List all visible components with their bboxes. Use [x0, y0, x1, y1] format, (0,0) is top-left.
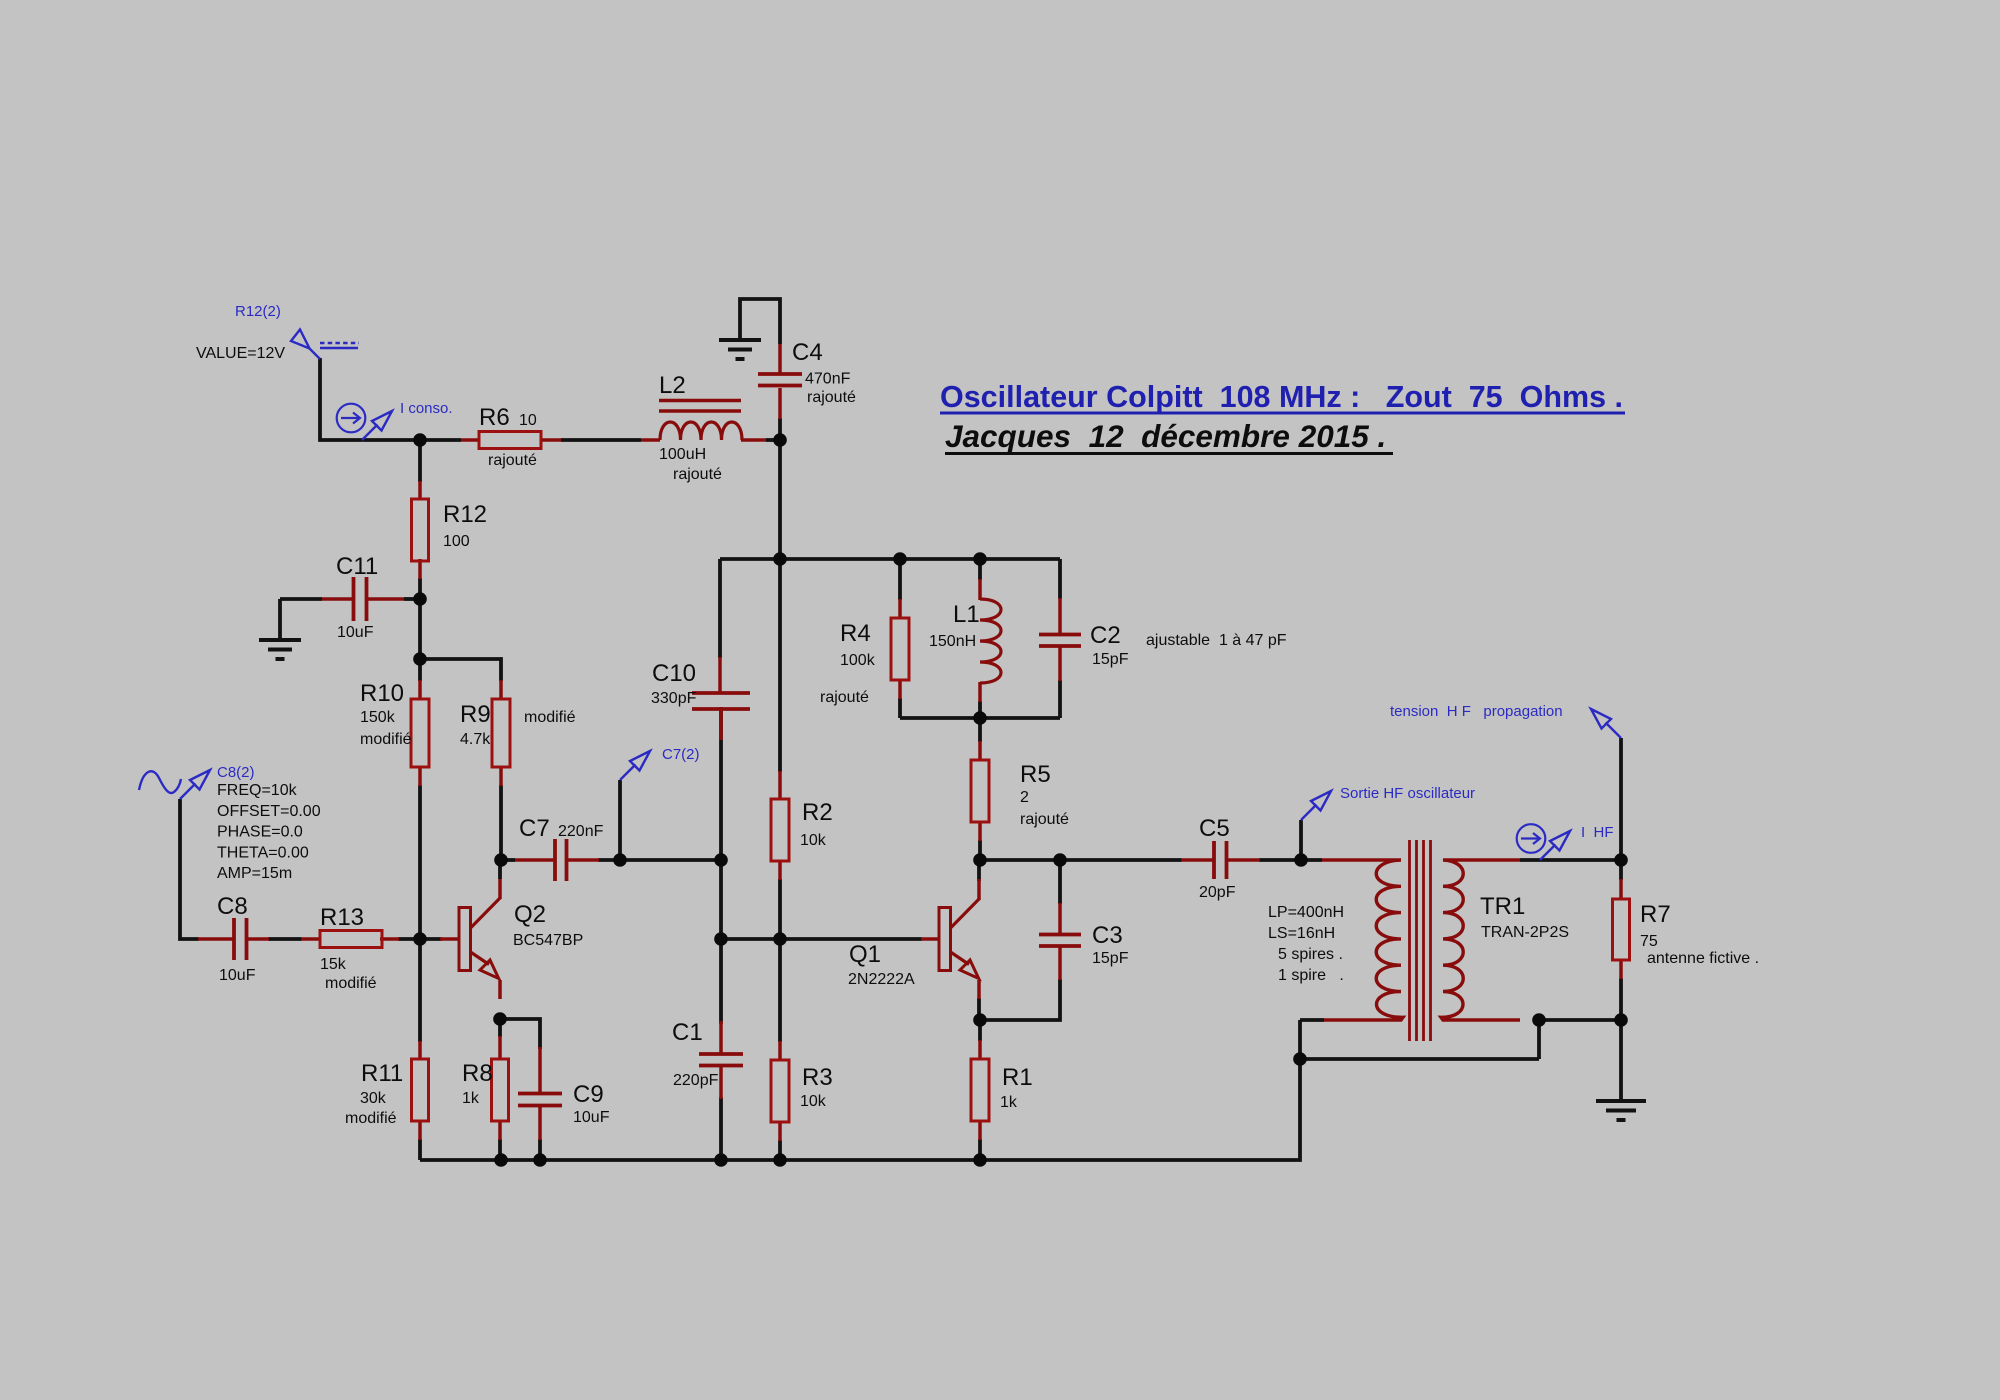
svg-text:R1: R1 — [1002, 1064, 1033, 1091]
svg-text:R10: R10 — [360, 680, 404, 707]
svg-text:ajustable 1 à 47 pF: ajustable 1 à 47 pF — [1146, 632, 1287, 649]
svg-text:150nH: 150nH — [929, 633, 976, 650]
svg-text:Oscillateur Colpitt 108 MHz :: Oscillateur Colpitt 108 MHz : Zout 75 Oh… — [940, 380, 1623, 414]
svg-text:R2: R2 — [802, 799, 833, 826]
svg-text:modifié: modifié — [360, 731, 412, 748]
svg-text:10uF: 10uF — [573, 1109, 610, 1126]
svg-text:C9: C9 — [573, 1081, 604, 1108]
svg-text:R8: R8 — [462, 1060, 493, 1087]
svg-text:R6: R6 — [479, 404, 510, 431]
svg-text:1k: 1k — [462, 1090, 480, 1107]
svg-text:THETA=0.00: THETA=0.00 — [217, 844, 309, 861]
svg-text:I conso.: I conso. — [400, 400, 453, 417]
svg-text:C5: C5 — [1199, 815, 1230, 842]
svg-text:LP=400nH: LP=400nH — [1268, 904, 1344, 921]
svg-text:R12(2): R12(2) — [235, 303, 281, 320]
svg-text:VALUE=12V: VALUE=12V — [196, 345, 285, 362]
svg-text:220pF: 220pF — [673, 1072, 719, 1089]
svg-text:rajouté: rajouté — [488, 452, 537, 469]
svg-text:100: 100 — [443, 533, 470, 550]
svg-text:R13: R13 — [320, 904, 364, 931]
svg-text:15pF: 15pF — [1092, 651, 1129, 668]
svg-text:330pF: 330pF — [651, 690, 697, 707]
svg-text:2N2222A: 2N2222A — [848, 971, 915, 988]
svg-text:C11: C11 — [336, 553, 378, 580]
svg-text:AMP=15m: AMP=15m — [217, 865, 292, 882]
svg-text:470nF: 470nF — [805, 371, 851, 388]
svg-text:modifié: modifié — [325, 975, 377, 992]
svg-text:C3: C3 — [1092, 922, 1123, 949]
svg-text:rajouté: rajouté — [673, 466, 722, 483]
svg-text:1 spire .: 1 spire . — [1278, 967, 1344, 984]
svg-text:Q1: Q1 — [849, 941, 881, 968]
svg-text:LS=16nH: LS=16nH — [1268, 925, 1335, 942]
svg-text:150k: 150k — [360, 709, 396, 726]
svg-text:R3: R3 — [802, 1064, 833, 1091]
svg-text:C7: C7 — [519, 815, 550, 842]
svg-text:15pF: 15pF — [1092, 950, 1129, 967]
svg-text:rajouté: rajouté — [1020, 811, 1069, 828]
svg-text:75: 75 — [1640, 933, 1658, 950]
svg-text:Sortie HF oscillateur: Sortie HF oscillateur — [1340, 785, 1475, 802]
svg-text:20pF: 20pF — [1199, 884, 1236, 901]
svg-text:I HF: I HF — [1581, 824, 1614, 841]
svg-text:30k: 30k — [360, 1090, 387, 1107]
svg-text:C4: C4 — [792, 339, 823, 366]
svg-text:modifié: modifié — [345, 1110, 397, 1127]
svg-text:R7: R7 — [1640, 901, 1671, 928]
svg-text:Jacques 12 décembre 2015 .: Jacques 12 décembre 2015 . — [945, 418, 1386, 454]
svg-text:TRAN-2P2S: TRAN-2P2S — [1481, 924, 1569, 941]
svg-text:C1: C1 — [672, 1019, 703, 1046]
svg-text:antenne fictive .: antenne fictive . — [1647, 950, 1759, 967]
svg-text:C7(2): C7(2) — [662, 746, 700, 763]
svg-text:rajouté: rajouté — [807, 389, 856, 406]
svg-text:2: 2 — [1020, 789, 1029, 806]
svg-text:tension H F propagation: tension H F propagation — [1390, 703, 1563, 720]
svg-text:10uF: 10uF — [219, 967, 256, 984]
svg-text:TR1: TR1 — [1480, 893, 1525, 920]
svg-text:FREQ=10k: FREQ=10k — [217, 782, 298, 799]
svg-text:R4: R4 — [840, 620, 871, 647]
svg-text:100uH: 100uH — [659, 446, 706, 463]
svg-text:10k: 10k — [800, 1093, 827, 1110]
svg-text:220nF: 220nF — [558, 823, 604, 840]
svg-text:R5: R5 — [1020, 761, 1051, 788]
svg-text:C8: C8 — [217, 893, 248, 920]
svg-text:10k: 10k — [800, 832, 827, 849]
svg-text:4.7k: 4.7k — [460, 731, 491, 748]
svg-text:R12: R12 — [443, 501, 487, 528]
svg-text:OFFSET=0.00: OFFSET=0.00 — [217, 803, 321, 820]
svg-text:rajouté: rajouté — [820, 689, 869, 706]
svg-text:C10: C10 — [652, 660, 696, 687]
svg-text:10uF: 10uF — [337, 624, 374, 641]
svg-text:15k: 15k — [320, 956, 347, 973]
svg-text:PHASE=0.0: PHASE=0.0 — [217, 824, 303, 841]
svg-text:R11: R11 — [361, 1060, 403, 1087]
svg-text:L1: L1 — [953, 601, 980, 628]
svg-text:L2: L2 — [659, 372, 686, 399]
svg-text:Q2: Q2 — [514, 901, 546, 928]
svg-text:BC547BP: BC547BP — [513, 932, 583, 949]
svg-text:C2: C2 — [1090, 622, 1121, 649]
svg-text:C8(2): C8(2) — [217, 764, 255, 781]
svg-text:1k: 1k — [1000, 1094, 1018, 1111]
svg-text:R9: R9 — [460, 701, 491, 728]
svg-text:5 spires .: 5 spires . — [1278, 946, 1343, 963]
svg-text:modifié: modifié — [524, 709, 576, 726]
svg-text:100k: 100k — [840, 652, 876, 669]
svg-text:10: 10 — [519, 412, 537, 429]
